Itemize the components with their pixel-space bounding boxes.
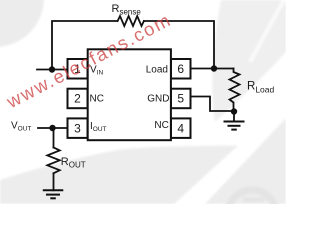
wire V_IN stub left bbox=[37, 69, 68, 71]
wire V_OUT stub bbox=[38, 127, 68, 129]
wire pin5 elbow to node B bbox=[190, 97, 234, 112]
svg-text:NC: NC bbox=[154, 120, 168, 131]
ground symbol left bbox=[43, 190, 64, 198]
op-amp U1 IC body bbox=[88, 49, 171, 140]
pin 6 box bbox=[171, 59, 191, 79]
svg-text:3: 3 bbox=[74, 121, 81, 135]
node B junction dot bbox=[231, 108, 237, 114]
svg-text:5: 5 bbox=[177, 92, 184, 106]
pin 3 box bbox=[68, 118, 88, 137]
background ring crossbar bbox=[243, 198, 264, 203]
background ring bottom-right bbox=[228, 190, 276, 238]
ground symbol right bbox=[224, 122, 245, 130]
background gray dome bottom bbox=[0, 146, 238, 205]
svg-text:6: 6 bbox=[177, 62, 184, 76]
node VIN junction dot bbox=[49, 66, 55, 72]
resistor R_Load bbox=[230, 69, 240, 112]
wire node B to ground bbox=[233, 112, 235, 122]
pin 4 box bbox=[171, 118, 191, 137]
node C junction dot bbox=[49, 125, 55, 131]
pin 5 box bbox=[171, 89, 191, 109]
pin 1 box bbox=[68, 59, 88, 79]
wire pin6 to node A bbox=[190, 68, 234, 70]
wire Rsense to right corner bbox=[144, 21, 214, 69]
background base bbox=[0, 0, 286, 204]
wire R_OUT to ground bbox=[53, 173, 55, 190]
svg-text:GND: GND bbox=[147, 93, 169, 104]
background gray blob right bbox=[212, 0, 286, 122]
wire node C down to R_OUT bbox=[53, 128, 55, 148]
wire vertical left to Rsense bbox=[52, 21, 117, 70]
background white streak top-right bbox=[250, 0, 285, 62]
svg-text:NC: NC bbox=[90, 93, 104, 104]
svg-text:2: 2 bbox=[74, 92, 81, 106]
resistor R_sense bbox=[118, 16, 144, 26]
background gray disc top-left bbox=[0, 0, 44, 47]
svg-text:4: 4 bbox=[177, 121, 184, 135]
background gray wedge bottom-right bbox=[205, 118, 286, 204]
node A junction dot bbox=[211, 65, 217, 71]
resistor R_OUT bbox=[47, 148, 59, 174]
pin 2 box bbox=[68, 89, 88, 109]
svg-text:Load: Load bbox=[146, 65, 168, 76]
